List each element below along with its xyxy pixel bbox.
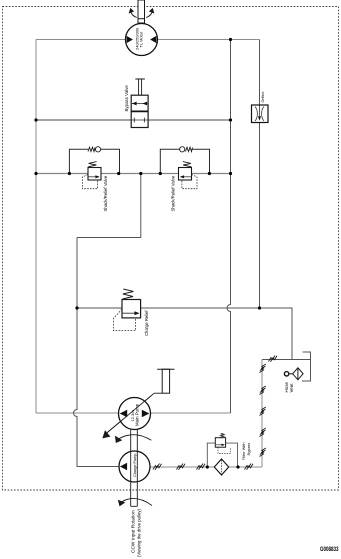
junction: filter inlet <box>206 465 209 468</box>
junction: left loop left leg <box>68 172 71 175</box>
shock/relief valve right: spring <box>183 162 191 167</box>
junction: orifice line / charge relief line <box>258 306 261 309</box>
junction: bypass line / right bus <box>229 118 232 121</box>
wire: pump line right <box>150 412 230 414</box>
wire: right shock loop <box>160 149 209 173</box>
wire: hose drop (vent to filter) <box>261 360 263 468</box>
filter bypass relief: spring <box>220 433 224 437</box>
lower cell: through path with port ticks <box>131 119 148 121</box>
wire: left bus vertical <box>35 40 37 414</box>
pump servo cylinder <box>157 369 174 393</box>
shock/relief valve left: pilot dashed <box>83 175 98 189</box>
junction: bypass line / left bus <box>34 118 37 121</box>
shock/relief valve right: pilot dashed <box>182 175 197 189</box>
charge pump P2 <box>119 430 150 507</box>
main pump P1 <box>107 396 152 433</box>
svg-text:TL Motor: TL Motor <box>139 31 144 48</box>
drive shaft through charge pump <box>131 430 138 507</box>
junction: right loop right leg <box>208 172 211 175</box>
svg-text:Orifice: Orifice <box>261 92 265 103</box>
svg-text:Shock/Relief Valve: Shock/Relief Valve <box>103 175 108 211</box>
junction: filter outlet <box>236 465 239 468</box>
svg-text:Shock/Relief Valve: Shock/Relief Valve <box>170 175 175 211</box>
wire: suction line charge pump to hose drop <box>150 466 262 468</box>
wire: motor line right to orifice corner <box>157 39 259 41</box>
wire: orifice vertical <box>259 40 261 309</box>
wire: charge feed vertical with hop over pump line <box>74 238 119 467</box>
bypass valve stem <box>135 79 145 95</box>
bypass valve body <box>131 95 148 127</box>
junction: motor line / right bus <box>229 38 232 41</box>
wire: vent header <box>262 359 311 361</box>
motor rotation arrows <box>129 9 153 18</box>
motor U1: drive motor circle <box>126 24 158 56</box>
wire: pump line left <box>36 412 119 414</box>
vent bracket <box>302 352 311 381</box>
hose vent breather <box>284 368 303 380</box>
wire: bypass line (node B) <box>36 119 231 121</box>
pump displacement arrow (diagonal) <box>103 393 162 438</box>
junction: right loop left leg <box>159 172 162 175</box>
wire: charge relief line <box>77 308 292 360</box>
svg-text:(Viewing the drive pulley): (Viewing the drive pulley) <box>137 509 142 557</box>
charge relief valve: spring <box>123 289 134 299</box>
filter with bypass: diamond <box>214 459 228 475</box>
junction: left loop right leg <box>117 172 120 175</box>
check valve (left loop): spring and ball <box>88 147 101 152</box>
hose marks on suction line <box>153 464 253 470</box>
charge relief valve: pilot dashed <box>113 309 135 331</box>
input rotation arrow <box>119 498 153 505</box>
filter bypass relief: body <box>215 438 225 448</box>
filter bypass loop <box>207 443 237 467</box>
shock/relief valve left: body <box>88 168 101 181</box>
motor port triangles (inward) <box>127 36 133 43</box>
wire: right bus vertical with hop over charge line <box>227 40 230 414</box>
orifice <box>252 105 269 123</box>
svg-text:Bypass: Bypass <box>246 443 251 456</box>
pump rotation arrow <box>116 435 152 443</box>
junction: shock line / left bus <box>34 172 37 175</box>
svg-text:Charge Pump: Charge Pump <box>133 454 137 477</box>
svg-text:Bypass Valve: Bypass Valve <box>124 85 129 112</box>
wire: shock line (node C) <box>36 173 231 175</box>
svg-text:Charge Relief: Charge Relief <box>144 310 149 336</box>
wire: shock-line drop to charge feed <box>77 174 141 238</box>
wire: left shock loop <box>69 149 119 173</box>
svg-text:G008833: G008833 <box>320 547 339 553</box>
hose mark on vent header <box>269 356 278 362</box>
shock/relief valve right: body <box>179 168 192 181</box>
junction: charge feed drop <box>139 172 142 175</box>
junction: charge feed / charge relief line <box>75 306 78 309</box>
svg-text:CCW Input Rotation: CCW Input Rotation <box>130 510 136 553</box>
junction: shock line / right bus <box>229 172 232 175</box>
svg-text:Main Pump: Main Pump <box>135 403 140 426</box>
motor shaft <box>138 0 145 23</box>
svg-text:Vent: Vent <box>289 383 294 393</box>
wire: motor line left (node A) <box>36 39 126 41</box>
shock/relief valve left: spring <box>88 162 96 167</box>
check valve (right loop): ball and spring <box>180 147 193 152</box>
filter bypass relief: pilot dashed <box>218 447 230 453</box>
charge relief valve: body <box>122 300 141 318</box>
hose marks on hose drop <box>260 364 266 457</box>
upper cell: arrows <box>132 103 147 105</box>
